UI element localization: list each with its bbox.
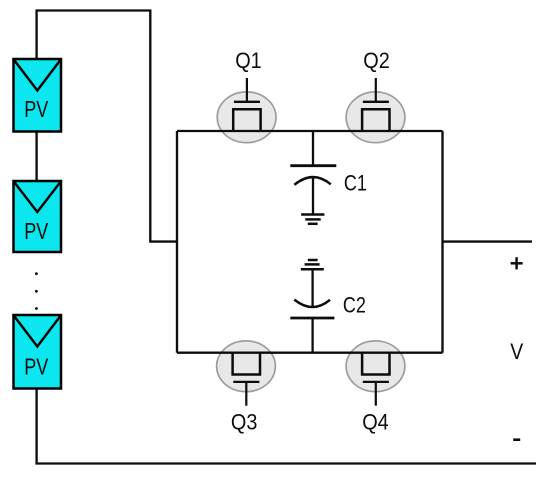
svg-text:Q3: Q3 — [231, 410, 258, 435]
svg-text:C1: C1 — [344, 170, 367, 195]
svg-text:PV: PV — [24, 218, 49, 244]
svg-text:Q1: Q1 — [235, 48, 262, 73]
svg-text:PV: PV — [24, 353, 49, 379]
svg-text:PV: PV — [24, 96, 49, 122]
svg-text:V: V — [510, 339, 523, 364]
svg-text:C2: C2 — [343, 293, 366, 318]
svg-text:Q4: Q4 — [362, 410, 389, 435]
svg-text:Q2: Q2 — [363, 48, 390, 73]
